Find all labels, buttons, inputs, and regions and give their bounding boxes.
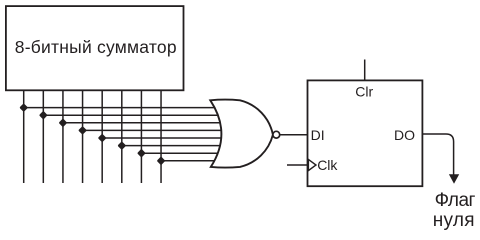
junction bit7 <box>157 156 166 165</box>
svg-text:8-битный сумматор: 8-битный сумматор <box>15 37 177 57</box>
svg-text:DI: DI <box>311 127 325 143</box>
wire bit3 tap to gate <box>83 129 224 131</box>
NOR gate G1 output bubble <box>273 131 280 138</box>
svg-text:Флаг: Флаг <box>435 190 476 211</box>
junction bit6 <box>137 149 146 158</box>
svg-text:DO: DO <box>394 127 415 143</box>
wire bit2 tap to gate <box>63 122 224 124</box>
wire bit4 tap to gate <box>102 137 224 139</box>
wire bit6 vertical <box>140 90 142 183</box>
NOR gate G1 body <box>210 100 273 168</box>
junction bit1 <box>39 111 48 120</box>
svg-text:Clr: Clr <box>355 84 373 100</box>
wire bit5 vertical <box>121 90 123 183</box>
wire bit0 vertical <box>23 90 25 183</box>
wire bit1 vertical <box>42 90 44 183</box>
junction bit3 <box>78 126 87 135</box>
clock edge triangle <box>308 159 316 170</box>
wire bit4 vertical <box>101 90 103 183</box>
wire bit0 tap to gate <box>24 107 224 109</box>
wire bit6 tap to gate <box>141 152 224 154</box>
junction bit4 <box>98 134 107 143</box>
wire bit7 vertical <box>160 90 162 183</box>
junction bit5 <box>117 141 126 150</box>
junction bit2 <box>59 118 68 127</box>
junction bit0 <box>19 103 28 112</box>
wire bit5 tap to gate <box>122 145 224 147</box>
svg-text:Clk: Clk <box>317 157 338 173</box>
wire bit2 vertical <box>62 90 64 183</box>
wire Clr input <box>364 60 366 81</box>
wire Clk input <box>287 164 308 166</box>
wire bit3 vertical <box>82 90 84 183</box>
wire bit7 tap to gate <box>161 160 224 162</box>
svg-text:нуля: нуля <box>433 210 475 231</box>
arrowhead to flag <box>449 174 459 184</box>
wire gate output to DI <box>280 134 308 136</box>
adder box U1 (8-bit adder) <box>6 6 184 90</box>
latch U2 box <box>308 80 423 186</box>
wire DO output with bend <box>422 134 453 175</box>
wire bit1 tap to gate <box>43 114 224 116</box>
